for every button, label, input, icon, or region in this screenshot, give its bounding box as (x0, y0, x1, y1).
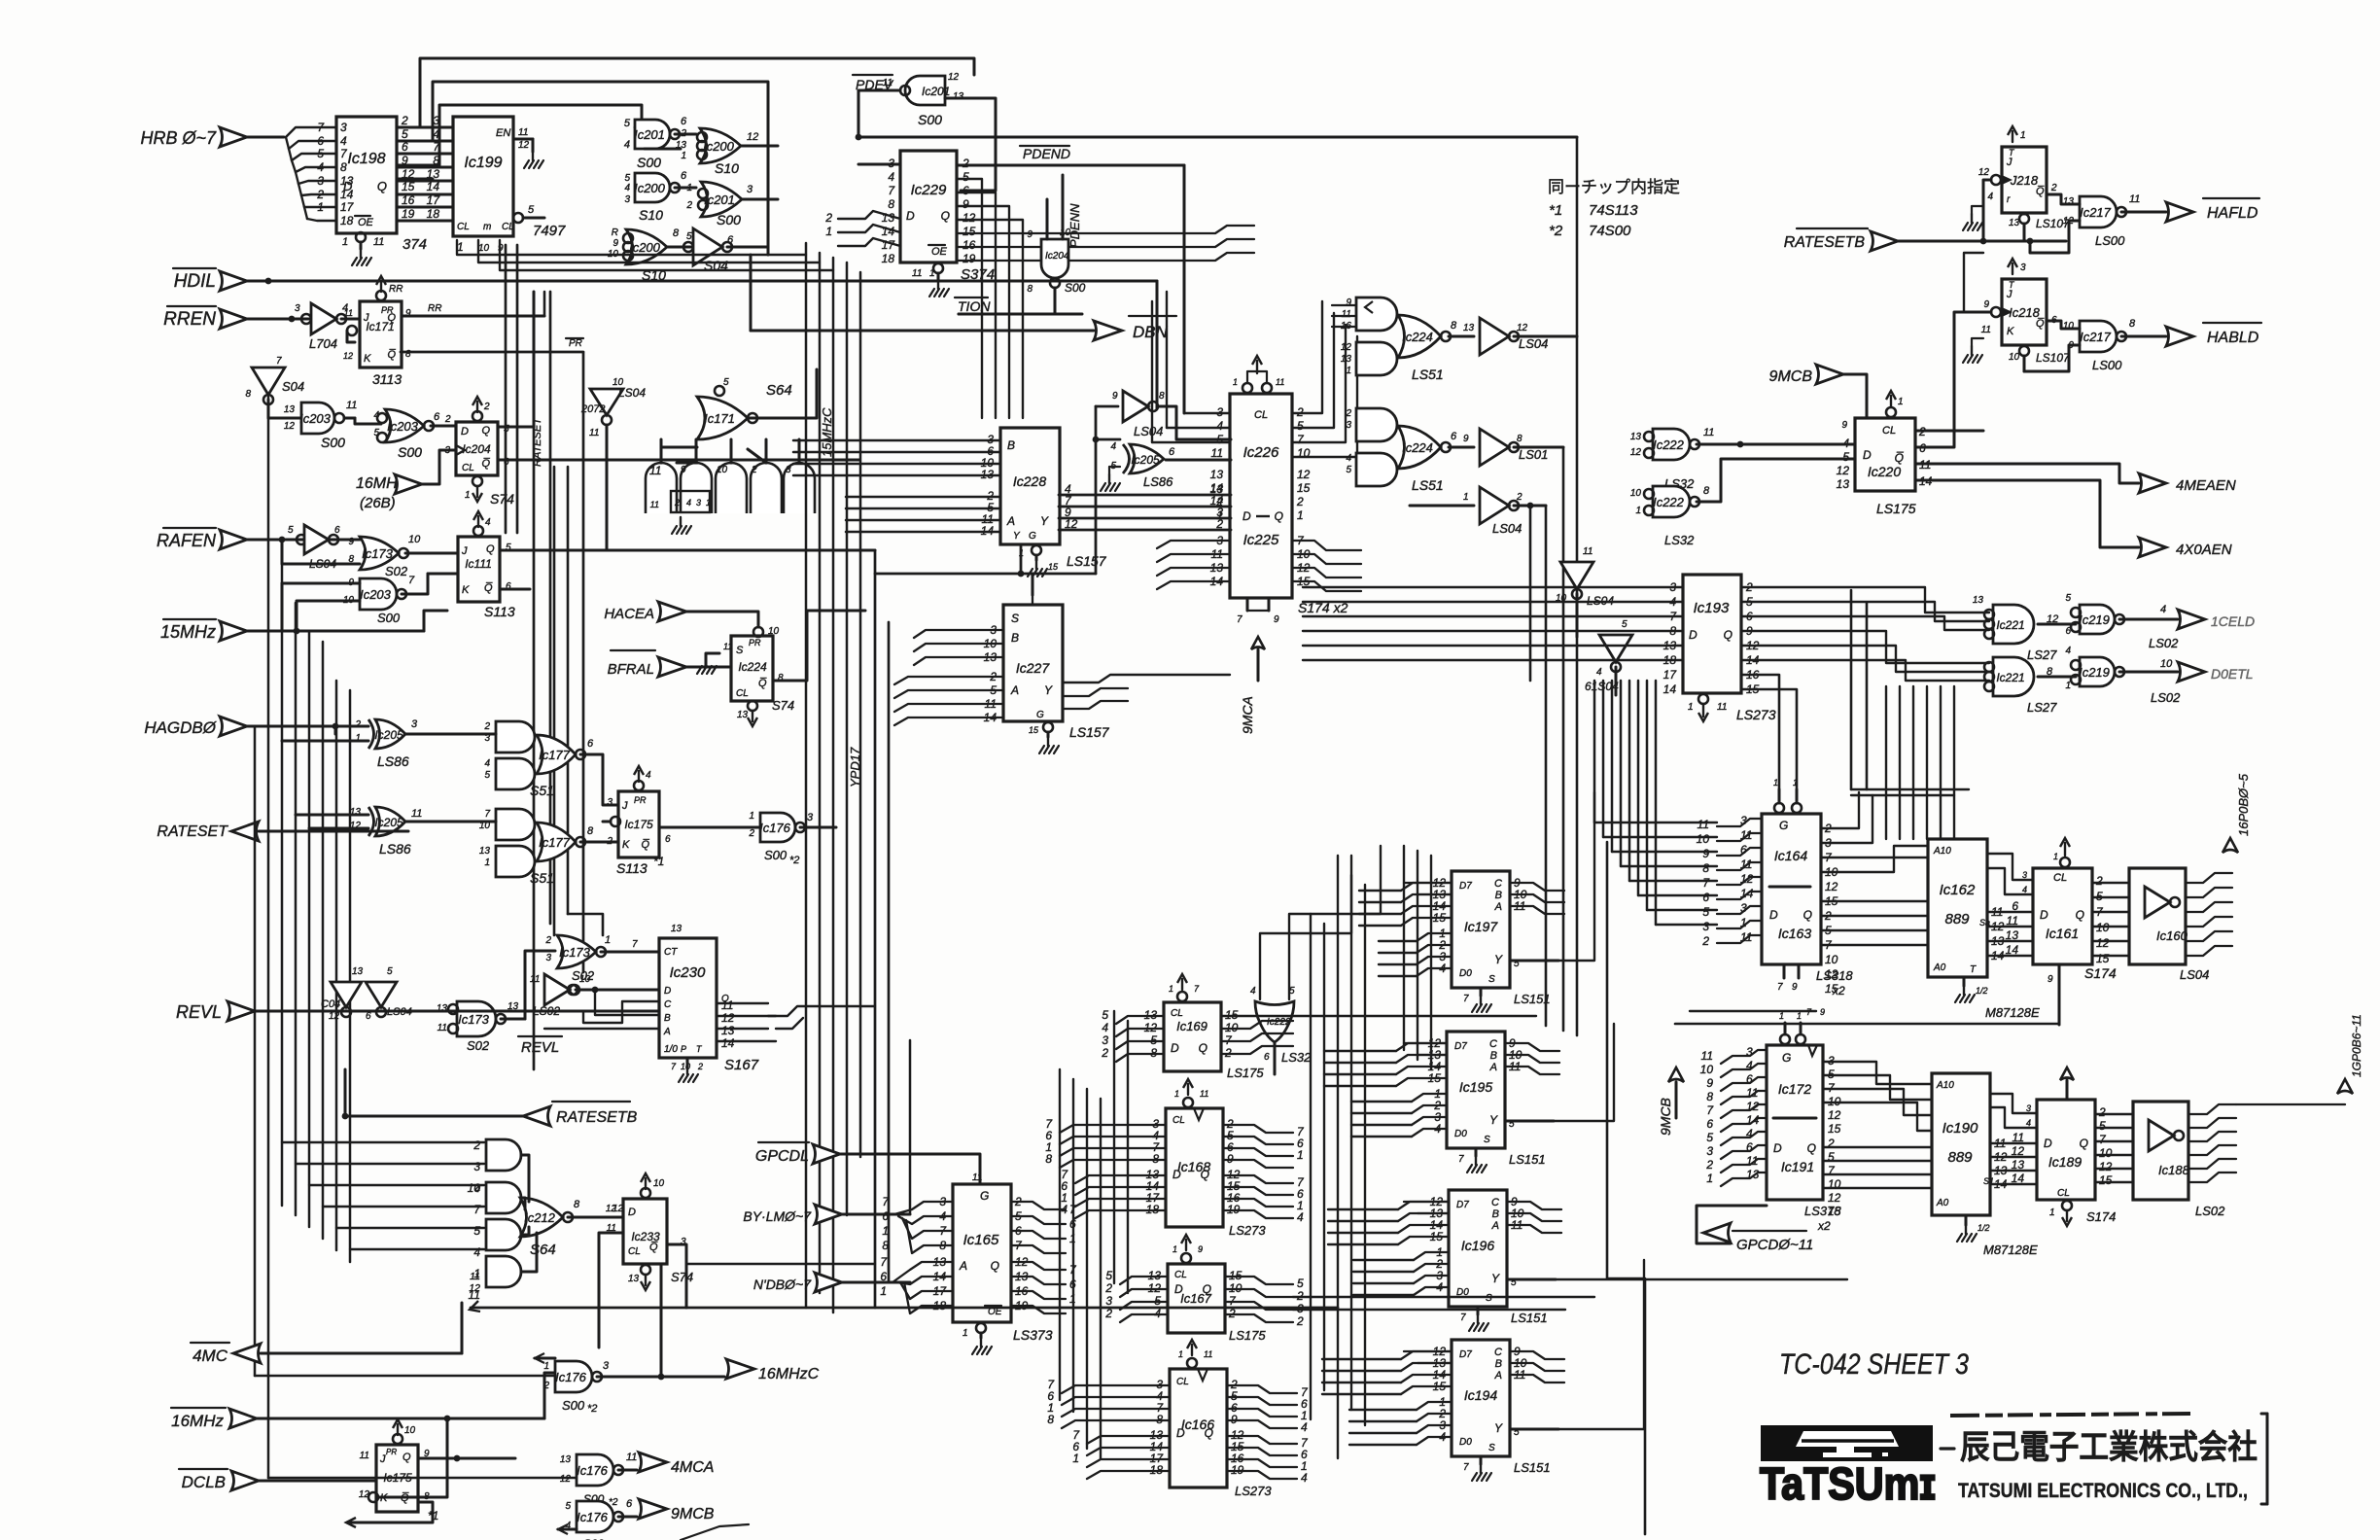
svg-text:13: 13 (1746, 1168, 1760, 1181)
nand IC176 S00 (760, 813, 795, 842)
svg-text:1: 1 (2053, 852, 2058, 861)
svg-text:1: 1 (1773, 778, 1778, 787)
svg-text:D: D (461, 426, 469, 437)
svg-text:1: 1 (342, 236, 348, 248)
svg-text:1: 1 (465, 490, 471, 501)
svg-text:2: 2 (1296, 1289, 1304, 1303)
svg-text:11: 11 (346, 400, 357, 411)
svg-text:LS04: LS04 (1519, 336, 1548, 351)
svg-text:Ic193: Ic193 (1694, 600, 1730, 616)
svg-text:R: R (612, 227, 618, 238)
svg-text:16: 16 (402, 193, 415, 207)
svg-text:Q: Q (1724, 628, 1732, 642)
svg-text:4: 4 (1987, 192, 1993, 202)
svg-text:7: 7 (632, 939, 638, 950)
output 9MCB bottom (639, 1499, 667, 1519)
svg-text:Ic164: Ic164 (1774, 848, 1807, 863)
svg-text:14: 14 (721, 1036, 735, 1050)
svg-text:2: 2 (483, 721, 490, 732)
svg-text:14: 14 (2012, 1172, 2025, 1185)
svg-text:12: 12 (518, 140, 530, 151)
svg-text:S: S (1488, 1443, 1495, 1453)
svg-text:12: 12 (1746, 1100, 1760, 1113)
svg-text:4: 4 (340, 134, 347, 148)
svg-text:6: 6 (681, 170, 687, 182)
wires aoi to IC175 (580, 754, 618, 805)
svg-text:4: 4 (2065, 646, 2071, 656)
svg-text:A0: A0 (1933, 962, 1946, 973)
nor IC212 S64 (520, 1198, 563, 1237)
svg-text:12: 12 (948, 72, 960, 83)
svg-text:Ic171: Ic171 (704, 411, 735, 426)
svg-text:Q̅: Q̅ (2036, 186, 2045, 197)
svg-text:Ic230: Ic230 (670, 964, 706, 981)
svg-text:11: 11 (518, 127, 528, 138)
top trunk wires (420, 58, 974, 127)
svg-text:7: 7 (1463, 1462, 1469, 1473)
svg-text:Ic201: Ic201 (634, 127, 665, 142)
svg-text:1: 1 (1216, 508, 1223, 522)
svg-text:LS151: LS151 (1514, 992, 1551, 1006)
nor IC173 S02 (360, 537, 399, 570)
svg-text:Ic177: Ic177 (539, 748, 571, 762)
svg-text:5: 5 (1297, 419, 1304, 433)
svg-text:2: 2 (483, 402, 490, 412)
svg-text:4X0AEN: 4X0AEN (2176, 542, 2232, 558)
svg-text:Ic176: Ic176 (759, 821, 791, 835)
bottom long wire (471, 1307, 1338, 1310)
svg-text:15: 15 (1297, 481, 1311, 495)
svg-text:4: 4 (1346, 453, 1351, 464)
svg-text:Ic221: Ic221 (1996, 671, 2024, 684)
svg-text:12: 12 (2012, 1144, 2025, 1158)
svg-text:LS175: LS175 (1227, 1066, 1264, 1080)
svg-text:D0: D0 (1456, 1287, 1469, 1298)
svg-text:13: 13 (676, 140, 687, 151)
nand IC201 PDEV reversed (905, 76, 945, 105)
svg-text:5: 5 (2099, 1119, 2106, 1133)
svg-text:Ic176: Ic176 (577, 1463, 609, 1478)
svg-text:9: 9 (1983, 299, 1989, 310)
trunk connect tops (457, 240, 806, 255)
svg-text:5: 5 (1842, 450, 1849, 464)
svg-text:11: 11 (1204, 1349, 1212, 1359)
svg-text:2: 2 (544, 935, 551, 946)
svg-text:5: 5 (565, 1501, 571, 1512)
wire nand pin13 to Ic229 (945, 98, 996, 191)
svg-text:Q̅: Q̅ (481, 458, 490, 470)
svg-text:4: 4 (1842, 437, 1849, 450)
wire junction below IC228 (1020, 544, 1023, 574)
ground IC227 (1043, 722, 1053, 732)
svg-text:11: 11 (1981, 325, 1991, 335)
svg-text:LS175: LS175 (1229, 1328, 1266, 1343)
svg-text:11: 11 (650, 500, 659, 509)
svg-text:LS04: LS04 (1134, 424, 1163, 438)
svg-text:1: 1 (1172, 1244, 1177, 1254)
svg-text:Q: Q (481, 425, 490, 437)
svg-text:Ic228: Ic228 (1013, 473, 1046, 489)
svg-text:9: 9 (1792, 982, 1798, 993)
svg-text:4: 4 (1746, 1059, 1753, 1072)
svg-text:Ic169: Ic169 (1176, 1019, 1207, 1033)
svg-text:4: 4 (2160, 604, 2166, 615)
svg-text:C: C (1494, 878, 1502, 890)
output 4MCA (639, 1452, 667, 1472)
svg-text:9: 9 (1027, 229, 1032, 240)
svg-text:D: D (628, 1207, 636, 1218)
svg-text:HABLD: HABLD (2207, 330, 2259, 346)
nand IC176c S00 (577, 1501, 613, 1532)
svg-text:D: D (1174, 1282, 1183, 1296)
svg-text:Ic205: Ic205 (1131, 453, 1160, 467)
svg-text:G: G (980, 1189, 989, 1203)
svg-text:LS273: LS273 (1235, 1484, 1272, 1498)
svg-text:2: 2 (1215, 495, 1223, 508)
svg-text:8: 8 (587, 825, 594, 837)
inverter L704 (301, 314, 311, 324)
svg-text:HAGDBØ: HAGDBØ (144, 718, 217, 737)
svg-text:CL: CL (2053, 872, 2067, 884)
svg-text:74S113: 74S113 (1589, 202, 1638, 219)
svg-text:1: 1 (962, 1328, 968, 1339)
IC226 inputs from pdend (1184, 412, 1230, 414)
wires ands to nor (521, 1155, 529, 1202)
svg-text:9MCA: 9MCA (1240, 696, 1255, 734)
ground IC218 (1972, 338, 1983, 346)
svg-text:Ic195: Ic195 (1459, 1079, 1492, 1095)
svg-text:1: 1 (1178, 1349, 1183, 1359)
svg-text:Q: Q (941, 209, 950, 223)
svg-text:LS02: LS02 (2149, 636, 2179, 650)
logo tatsumi mark (1761, 1425, 1933, 1461)
IC218 pin10 bubble (2019, 346, 2029, 356)
svg-text:Ic163: Ic163 (1778, 926, 1811, 941)
vcc IC111 (473, 526, 483, 536)
svg-text:7: 7 (888, 184, 895, 197)
svg-text:Y: Y (1494, 953, 1503, 966)
svg-text:1/2: 1/2 (1977, 1223, 1990, 1233)
left middle vertical bundle (553, 467, 556, 935)
svg-text:S51: S51 (530, 870, 554, 886)
svg-text:Q̅: Q̅ (484, 582, 493, 594)
svg-text:3: 3 (1746, 1045, 1753, 1059)
svg-text:12: 12 (2096, 936, 2110, 950)
svg-text:6: 6 (962, 184, 969, 197)
svg-text:Ic227: Ic227 (1016, 660, 1050, 676)
wires aoi upper inputs (1332, 304, 1356, 306)
svg-text:S02: S02 (385, 564, 408, 578)
svg-text:3: 3 (1706, 1144, 1713, 1158)
svg-text:11: 11 (626, 1452, 637, 1463)
svg-text:Y: Y (1491, 1272, 1500, 1285)
svg-text:18: 18 (427, 207, 440, 221)
svg-text:Ic176: Ic176 (577, 1510, 609, 1524)
svg-text:4: 4 (1216, 419, 1223, 433)
svg-text:Ic224: Ic224 (738, 660, 767, 674)
svg-text:5: 5 (288, 525, 294, 536)
svg-text:LS373: LS373 (1013, 1327, 1053, 1343)
IC225 right outputs (1292, 541, 1361, 550)
svg-text:2: 2 (1516, 492, 1522, 503)
svg-text:*2: *2 (789, 855, 799, 866)
svg-text:Ic222: Ic222 (1653, 495, 1685, 509)
svg-text:S00: S00 (377, 611, 401, 625)
nand IC203 S00 (301, 402, 334, 434)
svg-text:LS151: LS151 (1509, 1152, 1546, 1167)
vcc IC189 (2060, 1067, 2074, 1080)
svg-text:S00: S00 (764, 848, 787, 862)
svg-text:4: 4 (646, 770, 651, 781)
clock edge IC204 (456, 445, 465, 455)
svg-text:HAFLD: HAFLD (2207, 205, 2258, 222)
or IC222c LS32 down (1255, 1001, 1294, 1042)
svg-text:3: 3 (340, 121, 347, 134)
svg-text:PDEND: PDEND (1023, 146, 1070, 161)
vcc IC175 (634, 781, 644, 790)
svg-text:Q̅: Q̅ (649, 1242, 658, 1253)
flipflop IC218 lower LS107 (2002, 279, 2047, 345)
svg-text:7: 7 (1194, 984, 1200, 994)
svg-text:7: 7 (1463, 994, 1469, 1004)
svg-text:11: 11 (470, 1271, 480, 1282)
svg-text:10: 10 (717, 465, 728, 475)
svg-text:RATESET: RATESET (157, 823, 228, 840)
svg-text:Ic188: Ic188 (2158, 1163, 2190, 1177)
svg-text:DCLB: DCLB (182, 1473, 226, 1491)
svg-text:C: C (1489, 1038, 1497, 1050)
svg-text:5: 5 (402, 127, 408, 141)
svg-text:13: 13 (628, 1274, 640, 1284)
nor IC200 S10 (700, 128, 741, 163)
svg-text:13: 13 (1837, 477, 1850, 491)
output 16MHzC (726, 1359, 754, 1379)
svg-text:2: 2 (1705, 1158, 1713, 1172)
svg-text:2: 2 (542, 1381, 549, 1391)
svg-text:LS04: LS04 (2180, 967, 2209, 982)
svg-text:74S00: 74S00 (1589, 223, 1631, 239)
svg-text:2: 2 (1101, 1046, 1108, 1060)
corridor A verticals (1059, 1069, 1061, 1400)
svg-text:11: 11 (649, 464, 661, 477)
svg-text:T: T (2009, 148, 2015, 157)
svg-text:9: 9 (612, 238, 618, 249)
svg-text:6: 6 (434, 411, 440, 423)
vcc IC220 (1886, 407, 1896, 417)
trunk taps bottom (255, 1375, 555, 1378)
svg-text:5: 5 (624, 118, 631, 129)
vertical x900 bundle (874, 550, 877, 1308)
nand IC222b LS32 (1653, 486, 1690, 517)
svg-text:6: 6 (587, 738, 594, 750)
svg-text:M87128E: M87128E (1983, 1242, 2038, 1257)
vcc IC233 (641, 1188, 650, 1198)
svg-text:12: 12 (721, 1011, 735, 1025)
svg-text:8: 8 (673, 227, 680, 239)
inverter LS04 top of IC226 (1123, 391, 1148, 422)
svg-text:1/2: 1/2 (1976, 986, 1988, 996)
svg-text:6: 6 (665, 834, 671, 845)
svg-text:8: 8 (574, 1199, 580, 1210)
svg-text:2: 2 (1104, 1307, 1112, 1320)
svg-text:1: 1 (1635, 506, 1641, 516)
svg-text:8: 8 (888, 197, 894, 211)
svg-text:1CELD: 1CELD (2211, 613, 2255, 629)
svg-text:DBN: DBN (1133, 323, 1169, 341)
svg-text:9: 9 (1702, 847, 1709, 860)
svg-text:2: 2 (1296, 1314, 1304, 1328)
svg-text:13: 13 (2006, 928, 2019, 942)
ground IC198 (356, 232, 366, 242)
svg-text:3: 3 (1346, 420, 1351, 431)
svg-text:x2: x2 (1817, 1219, 1831, 1233)
svg-text:14: 14 (2006, 943, 2019, 957)
svg-text:4: 4 (1250, 986, 1256, 997)
svg-text:12: 12 (1065, 517, 1078, 531)
svg-text:7497: 7497 (533, 223, 566, 239)
vcc IC204 (472, 411, 482, 421)
svg-text:1: 1 (2020, 130, 2026, 141)
svg-text:1GP0B6~11: 1GP0B6~11 (2350, 1014, 2363, 1077)
svg-text:1: 1 (1069, 1232, 1076, 1245)
svg-text:1: 1 (1297, 508, 1304, 522)
svg-text:9: 9 (1706, 1076, 1713, 1090)
svg-text:6: 6 (1746, 1140, 1753, 1154)
bubble K in (368, 1492, 378, 1502)
svg-text:CL: CL (1254, 409, 1268, 421)
svg-text:5: 5 (528, 204, 535, 216)
ground IC190 (1965, 1215, 1968, 1225)
wires IC175b (418, 1457, 515, 1460)
register IC167 LS175 (1168, 1264, 1225, 1333)
svg-text:1: 1 (1706, 1172, 1713, 1185)
svg-text:7: 7 (1069, 1203, 1077, 1216)
vertical x936 (909, 1040, 912, 1214)
svg-text:LS27: LS27 (2027, 700, 2057, 715)
wire ratesetb to J218 J (1983, 180, 1991, 241)
buffer box IC188 (2133, 1102, 2188, 1200)
svg-text:11: 11 (344, 308, 353, 318)
svg-text:3: 3 (696, 498, 701, 507)
svg-text:5: 5 (484, 770, 490, 781)
svg-text:13: 13 (284, 404, 296, 415)
svg-text:CT: CT (664, 947, 678, 958)
svg-text:D: D (1171, 1041, 1179, 1055)
svg-text:A: A (663, 1027, 671, 1037)
nor IC201 S00 (701, 182, 742, 217)
svg-text:Ic205: Ic205 (374, 728, 403, 742)
svg-text:11: 11 (1342, 309, 1351, 320)
svg-text:Ic173: Ic173 (559, 945, 591, 960)
IC227 output fan (1063, 675, 1230, 682)
svg-text:Q: Q (1275, 509, 1283, 523)
svg-text:2: 2 (751, 465, 757, 475)
svg-text:5: 5 (473, 1224, 480, 1238)
svg-text:13: 13 (1341, 354, 1352, 365)
wire IC229 pin3 from trunk (858, 163, 900, 166)
IC229 out wires right (957, 179, 982, 418)
svg-text:S374: S374 (961, 266, 995, 283)
svg-text:6: 6 (1069, 1217, 1076, 1231)
svg-text:13: 13 (1463, 323, 1475, 333)
svg-text:Ic162: Ic162 (1940, 882, 1976, 898)
svg-text:1: 1 (484, 857, 490, 868)
register IC168 LS273 (1166, 1108, 1223, 1227)
IC164 bottom pins (1783, 964, 1786, 978)
svg-text:3: 3 (624, 194, 630, 205)
svg-text:12: 12 (469, 1282, 480, 1294)
svg-text:12: 12 (1740, 872, 1754, 886)
nor IC173b S02 (557, 935, 596, 968)
svg-text:Ic189: Ic189 (2048, 1154, 2082, 1170)
svg-text:5: 5 (2065, 593, 2071, 604)
svg-text:7: 7 (1702, 876, 1710, 890)
svg-text:J: J (621, 800, 628, 812)
svg-text:Y: Y (1489, 1113, 1498, 1127)
svg-text:Ic175: Ic175 (624, 818, 653, 831)
svg-text:B: B (1490, 1050, 1497, 1062)
wires into IC194 (1322, 1358, 1401, 1360)
svg-text:9: 9 (1820, 1007, 1825, 1017)
wire IC224 out (773, 611, 865, 681)
svg-text:N'DBØ~7: N'DBØ~7 (753, 1277, 812, 1292)
svg-text:9: 9 (348, 537, 354, 547)
svg-text:RREN: RREN (163, 309, 216, 330)
svg-text:Q̅: Q̅ (401, 1492, 409, 1504)
svg-text:8: 8 (1451, 320, 1457, 332)
wires IC220 outputs (1915, 430, 1983, 433)
wire to IC218 J (1964, 311, 1991, 314)
svg-text:Ic205: Ic205 (374, 816, 403, 829)
svg-text:Q: Q (402, 1452, 411, 1463)
svg-text:11: 11 (1746, 1086, 1758, 1100)
svg-text:A: A (1491, 1220, 1499, 1232)
svg-text:BFRAL: BFRAL (608, 661, 654, 678)
svg-text:8: 8 (1027, 284, 1032, 295)
svg-text:15: 15 (1048, 562, 1059, 572)
logo divider dash (1941, 1447, 1954, 1450)
output arrow bus right bottom (2337, 1079, 2353, 1094)
svg-text:8: 8 (245, 389, 251, 400)
svg-text:10: 10 (579, 974, 591, 985)
svg-text:Q: Q (486, 543, 495, 555)
svg-text:11: 11 (1276, 377, 1284, 387)
nand IC200 S10 (635, 173, 670, 202)
svg-text:7: 7 (880, 1255, 888, 1269)
svg-text:2: 2 (1296, 495, 1304, 508)
svg-text:13: 13 (1210, 468, 1224, 481)
svg-text:Ic229: Ic229 (911, 182, 947, 198)
wires Y outputs right (1558, 792, 1594, 961)
svg-text:(26B): (26B) (360, 495, 396, 511)
svg-text:8: 8 (1703, 485, 1710, 497)
logo right border (2266, 1414, 2269, 1504)
svg-text:LS32: LS32 (1281, 1050, 1312, 1065)
svg-text:PR: PR (381, 305, 394, 315)
svg-text:K: K (2007, 326, 2014, 337)
svg-text:14: 14 (1210, 481, 1224, 495)
wires top IC189 (1990, 1094, 2037, 1113)
svg-text:8: 8 (1047, 1413, 1054, 1426)
svg-text:4: 4 (624, 139, 630, 151)
svg-text:Ic220: Ic220 (1868, 464, 1901, 479)
ground IC162 (1963, 977, 1966, 986)
svg-text:S74: S74 (490, 491, 514, 507)
svg-text:A: A (1006, 514, 1015, 528)
nand IC204v S00 vertical (1041, 239, 1068, 278)
svg-text:Ic176: Ic176 (555, 1370, 587, 1384)
IC164 input fan (1717, 819, 1762, 826)
